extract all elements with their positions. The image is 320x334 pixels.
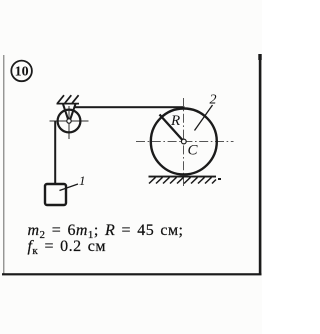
svg-text:fк = 0.2 см: fк = 0.2 см: [28, 238, 106, 257]
svg-text:2: 2: [210, 93, 217, 108]
svg-text:R: R: [170, 113, 180, 129]
svg-text:C: C: [188, 143, 199, 159]
svg-text:1: 1: [79, 173, 86, 188]
svg-text:10: 10: [15, 65, 29, 80]
